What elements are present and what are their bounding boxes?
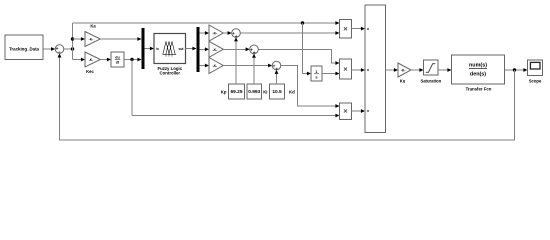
product P1 bbox=[340, 20, 352, 39]
svg-text:69.25: 69.25 bbox=[230, 89, 242, 95]
svg-text:Kd: Kd bbox=[289, 89, 295, 94]
wire transfer fcn to scope bbox=[505, 68, 528, 72]
svg-text:10.5: 10.5 bbox=[272, 89, 282, 95]
gain Ka bbox=[85, 24, 100, 47]
wire e out of sum bbox=[64, 47, 74, 50]
wire derivative to mux bbox=[124, 58, 142, 62]
wire to Ka bbox=[71, 37, 85, 41]
wire P1 to adder bbox=[352, 27, 366, 31]
mux bbox=[142, 28, 145, 69]
product P3 bbox=[340, 103, 352, 120]
demux bbox=[197, 27, 200, 72]
feedback wire bbox=[58, 53, 515, 140]
wire Kp up to S1 bbox=[234, 37, 238, 84]
svg-text:Kp: Kp bbox=[221, 89, 227, 94]
wire saturation to transfer fcn bbox=[438, 68, 452, 72]
svg-text:Scope: Scope bbox=[529, 78, 542, 83]
svg-text:Kec: Kec bbox=[86, 69, 94, 74]
wire Ki up to S2 bbox=[252, 54, 256, 84]
svg-text:Saturation: Saturation bbox=[420, 78, 441, 83]
svg-text:-K-: -K- bbox=[212, 64, 217, 68]
integrator 1/s bbox=[311, 66, 322, 81]
saturation block bbox=[420, 60, 441, 83]
svg-text:-K-: -K- bbox=[401, 68, 406, 72]
wire Kd up to S3 bbox=[275, 70, 279, 84]
transfer fcn block bbox=[452, 55, 505, 91]
svg-text:Transfer Fcn: Transfer Fcn bbox=[466, 86, 492, 91]
wire e up to rail bbox=[72, 23, 74, 49]
svg-text:Ki: Ki bbox=[263, 89, 267, 94]
source block Tracking_Data bbox=[5, 35, 43, 60]
svg-text:-K-: -K- bbox=[212, 48, 217, 52]
wire dKp to sum S1 bbox=[223, 31, 231, 35]
wire e branch down to integrator bbox=[303, 23, 312, 75]
wire adder to Ku bbox=[386, 68, 399, 72]
svg-text:du: du bbox=[115, 55, 119, 59]
wire dKi to sum S2 bbox=[223, 47, 249, 51]
svg-text:-K-: -K- bbox=[89, 58, 94, 62]
gain dKd bbox=[209, 58, 223, 74]
wire S3 to product P3 bbox=[281, 66, 340, 108]
wire demux out 1 bbox=[200, 31, 210, 35]
svg-text:in: in bbox=[156, 47, 159, 51]
svg-text:Tracking_Data: Tracking_Data bbox=[9, 47, 40, 52]
wire S1 to product P1 bbox=[240, 31, 339, 35]
svg-text:-K-: -K- bbox=[89, 38, 94, 42]
wire S2 to product P2 bbox=[258, 49, 339, 65]
wire integrator to P2 bbox=[322, 72, 340, 76]
constant Ki bbox=[247, 84, 268, 99]
constant Kd bbox=[270, 84, 296, 99]
wire Kec to derivative bbox=[100, 58, 111, 62]
wire source to sum bbox=[43, 47, 55, 51]
scope block bbox=[528, 60, 543, 83]
constant Kp bbox=[221, 84, 245, 99]
wire FLC to demux bbox=[186, 47, 197, 51]
svg-text:Controller: Controller bbox=[160, 71, 181, 76]
wire dKd to sum S3 bbox=[223, 64, 272, 68]
wire ec down to bottom rail bbox=[132, 60, 340, 118]
gain Ku bbox=[398, 63, 411, 83]
gain Kec bbox=[85, 52, 100, 74]
wire demux out 3 bbox=[200, 64, 210, 68]
gain dKp bbox=[209, 25, 223, 41]
wire P3 to adder bbox=[352, 109, 366, 113]
sum S2 bbox=[250, 45, 259, 54]
wire demux out 2 bbox=[200, 47, 210, 51]
e rail bbox=[73, 21, 340, 25]
svg-text:-K-: -K- bbox=[212, 32, 217, 36]
wire Ku to saturation bbox=[411, 68, 424, 72]
sum S3 bbox=[272, 61, 281, 70]
gain dKi bbox=[209, 41, 223, 57]
wire Ka to mux bbox=[100, 37, 141, 41]
product P2 bbox=[340, 59, 352, 79]
svg-text:num(s): num(s) bbox=[469, 63, 487, 69]
sum S1 bbox=[232, 29, 241, 38]
svg-text:Ka: Ka bbox=[90, 24, 96, 29]
derivative du/dt bbox=[111, 52, 124, 67]
wire P2 to adder bbox=[352, 68, 366, 72]
svg-text:Ku: Ku bbox=[400, 78, 406, 83]
svg-text:0.993: 0.993 bbox=[248, 89, 260, 95]
wire e down to Kec bbox=[73, 49, 86, 61]
summing junction S0 bbox=[55, 45, 64, 54]
wire mux to FLC bbox=[145, 47, 155, 51]
adder block bbox=[365, 5, 386, 133]
fuzzy logic controller U1 bbox=[154, 34, 186, 76]
svg-text:den(s): den(s) bbox=[470, 72, 486, 78]
